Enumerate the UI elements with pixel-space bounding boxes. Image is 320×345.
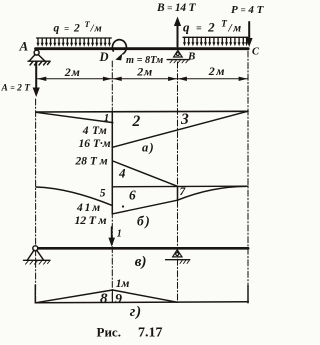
force P = 4T (down at C) [246, 22, 253, 47]
svg-text:2м: 2м [64, 65, 81, 79]
node B centerline [177, 62, 179, 301]
svg-text:7.17: 7.17 [138, 326, 163, 341]
support A (pin) [28, 50, 50, 65]
diagram g) influence line left [35, 290, 112, 303]
svg-text:6: 6 [129, 187, 136, 202]
node D centerline [111, 61, 113, 302]
svg-text:Рис.: Рис. [97, 325, 121, 340]
svg-text:г): г) [130, 304, 142, 320]
svg-text:2: 2 [132, 113, 141, 130]
beam v) [35, 247, 248, 250]
diagram b) segment D-B lower [113, 200, 178, 214]
unit force arrow at D (v) [108, 227, 115, 247]
svg-text:16 Т·м: 16 Т·м [79, 138, 111, 150]
diagram a) segment D-C [113, 111, 248, 147]
distributed load q A-D [37, 38, 112, 43]
svg-text:4: 4 [118, 166, 126, 181]
diagram b) baseline D-C [112, 185, 248, 188]
svg-text:В = 14 Т: В = 14 Т [156, 2, 196, 14]
svg-text:б): б) [137, 213, 151, 228]
svg-text:3: 3 [180, 111, 189, 128]
svg-text:12 Т м: 12 Т м [75, 213, 107, 227]
diagram g) baseline [35, 302, 248, 303]
beam AC [36, 47, 249, 50]
svg-text:а): а) [142, 141, 155, 155]
support A of v) (pin) [24, 246, 51, 264]
diagram a) jump at D [111, 112, 113, 214]
svg-text:8: 8 [100, 291, 108, 307]
dimension line row [38, 78, 248, 80]
node C centerline [247, 51, 249, 303]
svg-text:А = 2 Т: А = 2 Т [1, 84, 32, 94]
diagram a) segment A-D [36, 112, 113, 122]
svg-text:9: 9 [115, 292, 122, 307]
diagram b) segment D-B upper [113, 161, 178, 186]
diagram a) baseline [36, 110, 248, 113]
svg-text:5: 5 [100, 187, 106, 199]
svg-text:D: D [99, 50, 109, 64]
svg-text:28 Т м: 28 Т м [75, 155, 108, 167]
svg-text:в): в) [135, 254, 147, 270]
distributed load q B-C [183, 37, 248, 42]
diagram g) left tick [34, 285, 36, 303]
support B (roller) [167, 50, 189, 62]
svg-text:А: А [19, 39, 29, 54]
svg-text:1м: 1м [116, 278, 130, 290]
force B = 14T (up) [174, 17, 181, 47]
svg-text:1: 1 [104, 112, 110, 124]
support B of v) (roller) [166, 250, 190, 264]
stray dot [122, 205, 124, 207]
node A centerline [35, 99, 37, 302]
svg-text:2м: 2м [208, 64, 226, 78]
svg-text:С: С [252, 46, 260, 57]
svg-text:2м: 2м [136, 64, 153, 78]
reaction arrow A = 2T [33, 62, 40, 98]
diagram g) influence line right [113, 290, 178, 302]
diagram g) right tick at C [247, 286, 249, 303]
diagram b) curve B-C [178, 186, 247, 200]
svg-text:q = 2 Т/м: q = 2 Т/м [183, 20, 243, 35]
svg-text:4 Тм: 4 Тм [82, 125, 107, 137]
diagram b) jump at B [177, 186, 179, 200]
svg-text:1: 1 [117, 229, 122, 240]
diagram g) peak vertical [111, 290, 113, 303]
diagram b) curve A-D [36, 187, 112, 206]
svg-text:Р = 4 Т: Р = 4 Т [231, 4, 265, 16]
moment m at D (curved arrow) [112, 40, 126, 61]
svg-text:В: В [187, 51, 195, 63]
